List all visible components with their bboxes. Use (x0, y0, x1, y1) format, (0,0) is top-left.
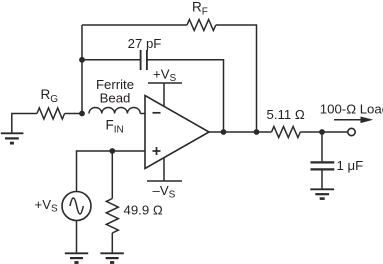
resistor RF (187, 20, 216, 31)
wire: junction to R 49.9 (111, 151, 113, 199)
wire: 1uF to ground (321, 171, 323, 190)
svg-text:+VS: +VS (35, 197, 59, 215)
wire: RF to output node (216, 25, 257, 132)
ground GND3 (49.9) (100, 253, 123, 262)
svg-text:FIN: FIN (106, 117, 124, 135)
wire: source to ground (76, 221, 78, 254)
ground GND4 (1uF) (310, 189, 334, 198)
capacitor C1 27pF (141, 50, 147, 70)
wire: noninverting input run (77, 151, 146, 192)
wire: feedback left vertical (81, 25, 83, 114)
resistor R2 49.9 (106, 199, 118, 234)
svg-text:49.9 Ω: 49.9 Ω (124, 203, 163, 218)
terminal: output open circle (348, 128, 355, 135)
wire: capacitor to output node (147, 60, 224, 132)
op-amp noninverting input symbol (153, 147, 161, 155)
wire: 5.11 to output terminal (300, 131, 347, 133)
node: feedback C junction (221, 129, 227, 135)
wire: load junction to 1uF (321, 132, 323, 161)
resistor R3 5.11 (272, 127, 301, 138)
arrow: load direction (334, 117, 373, 124)
svg-text:–VS: –VS (153, 183, 176, 201)
wire: RG to inverting node (65, 113, 82, 115)
node: inverting input junction (79, 111, 85, 117)
wire: input ground stub to RG (12, 114, 37, 134)
wire: bead to op-amp (140, 113, 145, 115)
svg-text:RF: RF (192, 0, 208, 18)
svg-text:100-Ω Load: 100-Ω Load (320, 102, 383, 117)
-VS supply rail (147, 158, 182, 181)
svg-text:+VS: +VS (153, 67, 177, 85)
node: source junction (109, 148, 115, 154)
svg-text:1 μF: 1 μF (337, 158, 364, 173)
node: load junction (319, 129, 325, 135)
svg-text:Bead: Bead (100, 91, 131, 106)
svg-text:27 pF: 27 pF (128, 36, 162, 51)
wire: op-amp output (209, 131, 272, 133)
ground GND2 (source) (65, 253, 88, 262)
ferrite bead FB (89, 108, 140, 114)
source VS circle (62, 192, 91, 221)
capacitor C2 1uF (311, 162, 335, 169)
svg-text:RG: RG (41, 87, 59, 105)
op-amp inverting input symbol (153, 112, 161, 114)
+VS supply rail (148, 83, 182, 106)
ground GND1 (input) (1, 133, 24, 143)
wire: 27pF node to capacitor (82, 59, 141, 61)
source VS sine (70, 198, 83, 214)
wire: top run to RF (82, 24, 187, 26)
node: feedback R junction (254, 129, 260, 135)
svg-text:5.11 Ω: 5.11 Ω (267, 107, 305, 122)
wire: R 49.9 to ground (111, 233, 113, 253)
resistor RG (37, 108, 65, 119)
node: 27pF junction (79, 57, 85, 63)
op-amp U1 (145, 96, 209, 169)
